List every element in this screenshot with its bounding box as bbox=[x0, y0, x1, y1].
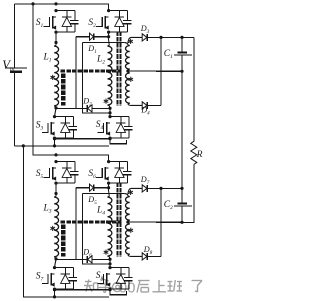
snubber capacitor of S1 bbox=[74, 11, 76, 20]
inductor L1 winding bbox=[54, 46, 58, 107]
polarity dot T2 secondary top bbox=[130, 190, 132, 195]
wire input rail cell2 bbox=[33, 155, 109, 162]
snubber box outline of S4 bbox=[110, 116, 129, 118]
node return tap bbox=[22, 144, 25, 147]
svg-text:R: R bbox=[196, 150, 203, 160]
wire S3 source to return bbox=[54, 138, 56, 146]
core bar of L3 bbox=[61, 224, 65, 256]
node return junction cell2 bbox=[53, 295, 56, 298]
node T1 center tap bbox=[126, 70, 129, 73]
polarity dot inductor L3 bbox=[52, 226, 54, 231]
node source of S6 bbox=[107, 182, 110, 185]
transformer T1 primary winding L2 bbox=[108, 32, 110, 40]
body diode of S3 bbox=[64, 117, 66, 123]
node drain of S8 bbox=[108, 266, 111, 269]
transistor S8 (MOSFET) bbox=[106, 273, 108, 286]
node Db2 right junction bbox=[108, 258, 111, 261]
body diode of S7 bbox=[64, 268, 66, 274]
capacitor C1 bbox=[181, 37, 183, 51]
transistor S7 (MOSFET) bbox=[50, 273, 52, 286]
node source of S8 bbox=[108, 288, 111, 291]
polarity dot T1 primary bottom bbox=[105, 99, 107, 104]
snubber box outline of S1 bbox=[56, 10, 75, 12]
snubber capacitor of S5 bbox=[74, 162, 76, 171]
transistor S3 (MOSFET) bbox=[50, 122, 52, 135]
diode Db1 clamp bbox=[90, 184, 94, 191]
node rectifier top junction bbox=[159, 187, 162, 190]
core bar horizontal (coupled core) cell2 bbox=[61, 221, 122, 224]
wire source negative lead bbox=[14, 73, 16, 146]
node rail-junction cell2 bbox=[54, 153, 57, 156]
wire D3 cathode to output node bbox=[147, 36, 182, 38]
diode D8 rectifier bottom bbox=[142, 253, 147, 260]
diode D3 rectifier top bbox=[142, 34, 147, 41]
node drain of S2 bbox=[107, 9, 110, 12]
transformer T2 core bars bbox=[117, 182, 119, 257]
core bar horizontal (coupled core) cell1 bbox=[61, 69, 122, 72]
node drain of S7 bbox=[53, 266, 56, 269]
snubber capacitor of S4 bbox=[128, 117, 130, 126]
resistor R load bbox=[191, 141, 197, 164]
node Db1 cathode junction bbox=[107, 186, 110, 189]
transformer T2 secondary winding lower bbox=[125, 223, 129, 254]
wire S7 source to return bbox=[54, 289, 56, 297]
snubber capacitor of S3 bbox=[72, 117, 74, 126]
transistor S1 (MOSFET) bbox=[52, 16, 54, 29]
wire S1 source to inductor L1 bbox=[55, 32, 57, 45]
node source of S7 bbox=[53, 288, 56, 291]
node drain of S5 bbox=[54, 160, 57, 163]
wire T2 secondary top to rectifier bbox=[128, 188, 142, 194]
diode Da1 clamp bbox=[90, 33, 94, 40]
wire source tie stub bbox=[110, 290, 126, 295]
voltage source Vin battery plates bbox=[6, 67, 28, 69]
wire T1 secondary bottom bbox=[128, 104, 142, 106]
diode Db2 freewheel (left pointing) bbox=[86, 256, 88, 263]
node T2 center tap bbox=[126, 221, 129, 224]
inductor L3 winding bbox=[54, 197, 58, 258]
node source of S5 bbox=[54, 182, 57, 185]
wire T1 primary to S4 drain bbox=[109, 108, 111, 116]
wire T2 secondary bottom bbox=[128, 255, 142, 257]
node bottom of L1 bbox=[54, 106, 57, 109]
wire rectifier vertical link bbox=[160, 188, 162, 256]
snubber box outline of S3 bbox=[55, 116, 74, 118]
node top of inductor L1 bbox=[54, 41, 57, 44]
node source tie left bbox=[53, 288, 56, 291]
node source of S2 bbox=[107, 30, 110, 33]
polarity dot T2 secondary mid bbox=[130, 228, 132, 233]
transistor S5 (MOSFET) bbox=[52, 167, 54, 180]
wire secondary top bbox=[82, 42, 124, 44]
diode Db2 freewheel wire bbox=[56, 258, 87, 260]
polarity dot T1 secondary mid bbox=[130, 77, 132, 82]
snubber box outline of S5 bbox=[56, 161, 75, 163]
node return junction cell1 bbox=[53, 144, 56, 147]
node drain of S6 bbox=[107, 160, 110, 163]
snubber capacitor of S8 bbox=[128, 268, 130, 277]
diode Da2 freewheel wire bbox=[56, 107, 87, 109]
wire output top to load rail bbox=[182, 36, 194, 38]
wire load rail upper bbox=[193, 37, 195, 141]
core bar of L1 bbox=[61, 73, 65, 105]
polarity dot T2 primary bottom bbox=[105, 250, 107, 255]
wire secondary-top riser bbox=[82, 194, 110, 264]
wire source tie row B bbox=[55, 138, 111, 140]
node Da1 cathode junction bbox=[107, 35, 110, 38]
node top rail tap bbox=[31, 2, 34, 5]
body diode of S6 bbox=[118, 162, 120, 168]
node drain of S4 bbox=[108, 115, 111, 118]
wire load rail lower bbox=[182, 164, 194, 222]
wire series link between cells bbox=[181, 71, 183, 188]
node rectifier top junction bbox=[159, 36, 162, 39]
node Da2 right junction bbox=[108, 107, 111, 110]
transistor S6 (MOSFET) bbox=[104, 167, 106, 180]
transistor S4 (MOSFET) bbox=[106, 122, 108, 135]
wire top rail from source bbox=[15, 3, 34, 5]
diode Da2 freewheel (left pointing) bbox=[86, 105, 88, 112]
wire feed to lower cell return bbox=[23, 146, 33, 297]
node drain of S1 bbox=[54, 9, 57, 12]
wire T1 secondary top to rectifier bbox=[128, 37, 142, 43]
body diode of S2 bbox=[118, 11, 120, 17]
diode D7 rectifier top bbox=[142, 185, 147, 192]
wire secondary-top riser bbox=[82, 43, 110, 113]
wire source positive lead bbox=[14, 4, 16, 67]
wire L3 bottom to S7 drain bbox=[55, 259, 57, 268]
snubber box outline of S6 bbox=[109, 161, 128, 163]
wire source tie stub bbox=[110, 139, 126, 144]
node source of S1 bbox=[54, 30, 57, 33]
node output cap top bbox=[180, 187, 183, 190]
snubber capacitor of S7 bbox=[72, 268, 74, 277]
node source tie right bbox=[108, 288, 111, 291]
transformer T1 core bars bbox=[117, 31, 119, 106]
wire clamp riser bbox=[75, 37, 77, 109]
body diode of S5 bbox=[66, 162, 68, 168]
wire return rail cell2 bbox=[23, 296, 109, 298]
transistor S2 (MOSFET) bbox=[104, 16, 106, 29]
node rail-junction cell1 bbox=[54, 2, 57, 5]
transformer T1 secondary winding lower bbox=[125, 72, 129, 103]
node source tie left bbox=[53, 137, 56, 140]
snubber capacitor of S6 bbox=[127, 162, 129, 171]
node bottom of L3 bbox=[54, 257, 57, 260]
body diode of S1 bbox=[66, 11, 68, 17]
body diode of S4 bbox=[120, 117, 122, 123]
snubber box outline of S2 bbox=[109, 10, 128, 12]
transformer T2 secondary winding upper bbox=[125, 194, 128, 196]
wire clamp riser bbox=[75, 188, 77, 260]
node source of S4 bbox=[108, 137, 111, 140]
wire input rail cell1 bbox=[33, 4, 109, 11]
body diode of S8 bbox=[120, 268, 122, 274]
node top of inductor L3 bbox=[54, 192, 57, 195]
wire S5 source to inductor L3 bbox=[55, 183, 57, 196]
snubber box outline of S7 bbox=[55, 267, 74, 269]
snubber capacitor of S2 bbox=[127, 11, 129, 20]
capacitor C2 bbox=[181, 188, 183, 202]
node riser junction bbox=[108, 262, 111, 265]
diode D4 rectifier bottom bbox=[142, 102, 147, 109]
transformer T1 secondary winding upper bbox=[125, 43, 128, 45]
wire positive feed to lower cell bbox=[33, 4, 40, 155]
wire rectifier vertical link bbox=[160, 37, 162, 105]
node riser junction bbox=[108, 111, 111, 114]
diode Da1 clamp wire bbox=[76, 36, 90, 38]
wire source tie row B bbox=[55, 289, 111, 291]
wire L1 bottom to S3 drain bbox=[55, 108, 57, 117]
node source of S3 bbox=[53, 137, 56, 140]
watermark text bbox=[85, 281, 92, 283]
polarity dot T1 secondary top bbox=[130, 39, 132, 44]
wire T2 primary to S8 drain bbox=[109, 259, 111, 267]
node C1 bottom bbox=[180, 70, 183, 73]
node output cap top bbox=[180, 36, 183, 39]
polarity dot inductor L1 bbox=[52, 75, 54, 80]
wire return rail cell1 bbox=[23, 145, 109, 147]
wire secondary top bbox=[82, 193, 124, 195]
node C2 bottom bbox=[180, 221, 183, 224]
node drain of S3 bbox=[53, 115, 56, 118]
wire center tap to output bbox=[128, 70, 182, 72]
node source tie right bbox=[108, 137, 111, 140]
wire D7 cathode to output node bbox=[147, 187, 182, 189]
wire center tap to output bbox=[128, 221, 182, 223]
wire negative to return junction bbox=[15, 145, 24, 147]
diode Db1 clamp wire bbox=[76, 187, 90, 189]
transformer T2 primary winding L4 bbox=[108, 183, 110, 191]
snubber box outline of S8 bbox=[110, 267, 129, 269]
